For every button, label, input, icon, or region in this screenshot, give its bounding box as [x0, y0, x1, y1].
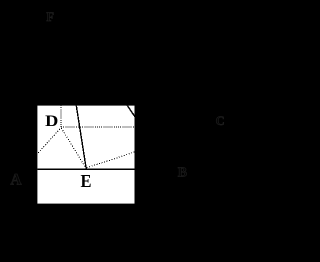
wire dotted vertical D up to top edge — [60, 105, 62, 128]
svg-text:F: F — [46, 10, 54, 24]
white viewport rectangle — [37, 106, 134, 204]
svg-text:B: B — [178, 166, 187, 181]
svg-text:E: E — [81, 171, 92, 191]
wire dotted E to C — [87, 152, 135, 168]
wire dotted horizontal D to right edge — [61, 126, 135, 128]
svg-text:C: C — [216, 114, 225, 128]
wire top-right diagonal (line clipped at corner) — [127, 105, 135, 117]
wire FE (solid line from top edge down to E) — [76, 105, 86, 169]
svg-text:A: A — [10, 172, 22, 189]
wire dotted D to A — [35, 128, 61, 157]
svg-text:D: D — [45, 113, 58, 130]
wire AB (horizontal solid line through E) — [36, 168, 135, 170]
wire dotted D to E — [61, 128, 86, 169]
